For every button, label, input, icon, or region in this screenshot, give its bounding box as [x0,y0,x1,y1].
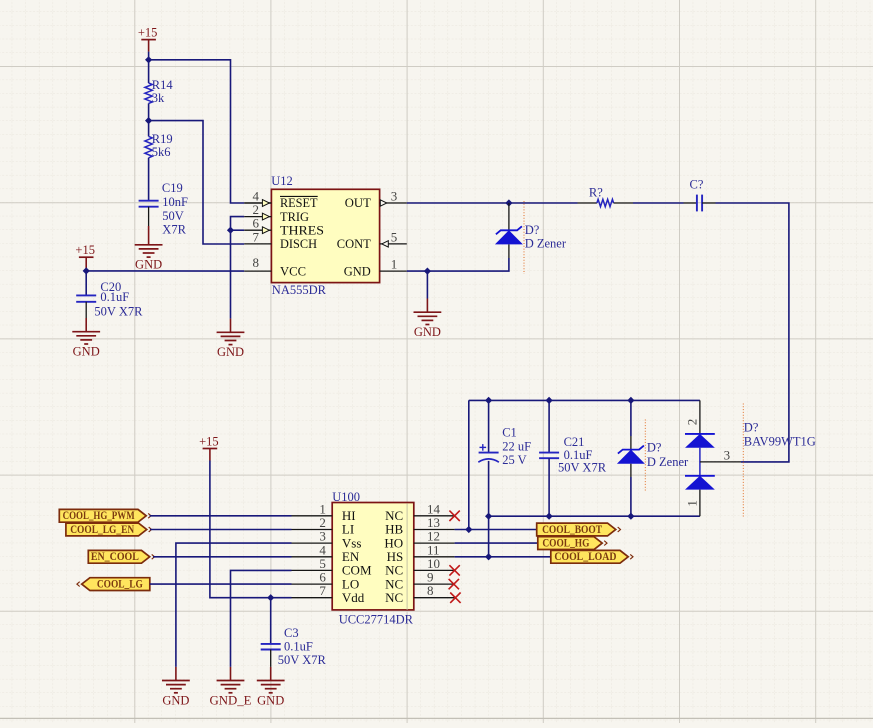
wire stem to ground [230,319,232,333]
svg-text:X7R: X7R [162,223,186,237]
svg-text:5k6: 5k6 [152,145,171,159]
svg-text:7: 7 [253,229,260,244]
svg-text:C?: C? [690,178,704,192]
wire top bus [469,399,700,401]
junction HS/COOL_LOAD [485,553,492,560]
wire HS to COOL_LOAD [455,556,551,558]
junction THRES tap [227,227,234,234]
wire zener to bottom bus [630,477,632,516]
wire EN_COOL to EN [153,556,292,558]
svg-text:GND: GND [162,693,189,707]
no-connect pin 14 [449,511,459,521]
svg-text:VCC: VCC [280,263,306,278]
wire COOL_LG_EN to LI [150,529,292,531]
pin 3 Vss [292,542,333,544]
no-connect pin 8 [450,593,460,603]
svg-text:50V X7R: 50V X7R [94,305,143,319]
svg-text:D Zener: D Zener [525,237,567,251]
junction HB/COOL_BOOT [465,526,472,533]
svg-text:0.1uF: 0.1uF [100,290,129,304]
wire C3 to ground [270,650,272,667]
ground GND under TRIG/THRES [217,332,245,344]
stem [175,667,177,681]
wire node B to R19 [148,121,150,137]
pin 1 GND [380,270,407,272]
svg-text:NA555DR: NA555DR [272,283,327,297]
port COOL_LG [82,578,150,591]
svg-text:GND: GND [73,345,100,359]
svg-text:GND: GND [257,693,284,707]
port COOL_HG [538,537,602,550]
wire +15 stem [85,269,87,271]
power +15 (top) [141,39,156,41]
svg-text:GND: GND [414,325,441,339]
junction GND drop [424,268,431,275]
junction C21 bottom [546,513,553,520]
svg-text:C1: C1 [502,426,517,440]
junction OUT/zener D? [505,199,512,206]
svg-text:8: 8 [253,255,260,270]
svg-text:GND: GND [135,258,162,272]
wire +15 down to R14 [148,60,150,83]
pin 11 HS [414,556,455,558]
pin 2 TRIG [244,216,271,218]
svg-text:2: 2 [685,419,700,426]
capacitor C21 [539,452,559,454]
junction C3 tap [267,594,274,601]
wire +15 to VCC pin 8 [86,270,244,272]
wire zener node to R? [509,202,578,204]
pin 6 THRES [244,229,271,231]
pin 5 COM [292,569,333,571]
svg-text:0.1uF: 0.1uF [284,640,313,654]
wire R19 to C19 [148,158,150,201]
wire C1 to bottom bus and COOL_LOAD net [488,461,490,557]
resistor R? [578,202,597,204]
svg-text:10nF: 10nF [162,195,188,209]
junction zener D? top [627,397,634,404]
svg-text:50V X7R: 50V X7R [558,461,607,475]
wire Vdd node to C3 [270,598,272,644]
capacitor C19 [139,200,159,202]
svg-text:COOL_HG: COOL_HG [542,538,589,550]
pin 12 HO [414,542,455,544]
junction C1 top [485,397,492,404]
svg-text:BAV99WT1G: BAV99WT1G [744,434,816,448]
svg-text:D Zener: D Zener [647,455,689,469]
svg-text:COOL_BOOT: COOL_BOOT [542,524,602,536]
svg-text:COOL_LG_EN: COOL_LG_EN [70,524,135,536]
svg-text:UCC27714DR: UCC27714DR [339,612,414,626]
svg-text:25 V: 25 V [502,453,526,467]
wire +15 down to C20 [85,271,87,296]
diode D? (D Zener) on bus [630,436,632,450]
svg-text:1: 1 [685,500,700,507]
wire +15 to RESET pin 4 [149,60,245,203]
svg-text:Vdd: Vdd [342,590,365,605]
no-connect pin 9 [449,579,459,589]
resistor R14 [145,83,152,103]
svg-text:C19: C19 [162,181,183,195]
wire bottom bus [489,515,700,517]
capacitor C? [684,202,697,204]
wire HB to COOL_BOOT [455,529,537,531]
wire R? to C? [633,202,684,204]
pin 4 EN [292,556,333,558]
svg-text:COOL_LG: COOL_LG [97,579,143,591]
pin 14 NC [414,515,455,517]
wire to ground [426,271,428,298]
svg-text:50V X7R: 50V X7R [278,653,327,667]
pin 7 Vdd [292,597,333,599]
wire THRES pin 6 branch [231,229,245,231]
port COOL_LOAD [551,550,628,563]
svg-text:D?: D? [744,420,759,434]
junction C1/bottom bus [485,513,492,520]
ground GND under C3 [257,681,285,693]
pin 1 HI [292,515,333,517]
wire C19 to ground [148,207,150,226]
pin 10 NC [414,569,455,571]
power +15 (VCC feed) [79,256,94,258]
wire COOL_HG_PWM to HI [150,515,292,517]
junction node B (R14/R19/DISCH) [145,117,152,124]
wire bus to C1 [488,400,490,452]
capacitor C3 [261,643,281,645]
ground GND_E [217,681,245,693]
wire COOL_LG to LO [150,583,292,585]
svg-text:7: 7 [319,583,326,598]
svg-text:COOL_LOAD: COOL_LOAD [554,551,616,563]
capacitor C1 (polarized) [479,452,499,454]
svg-text:U12: U12 [271,174,293,188]
svg-text:U100: U100 [332,490,360,504]
svg-text:CONT: CONT [337,236,371,251]
pin 6 LO [292,583,333,585]
error marker (orange dashed) at BAV99 [742,404,744,518]
svg-text:DISCH: DISCH [280,236,317,251]
no-connect pin 10 [449,565,459,575]
wire TRIG pin 2 down to ground [231,217,245,319]
junction +15 node A [145,56,152,63]
svg-text:COOL_HG_PWM: COOL_HG_PWM [63,510,135,522]
junction +15/C20/VCC [83,267,90,274]
pin 8 NC [414,597,455,599]
pin 2 LI [292,529,333,531]
pin 7 DISCH [244,243,271,245]
svg-text:3k: 3k [152,91,165,105]
op-amp/timer U12 NA555DR body [271,189,379,282]
svg-text:+15: +15 [75,243,95,257]
wire +15 to Vdd pin 7 [210,461,292,598]
wire Vss to ground [176,543,292,667]
pin 13 HB [414,529,455,531]
ground GND under C19 [135,245,163,257]
junction zener bottom [627,513,634,520]
pin 8 VCC [244,270,271,272]
svg-text:GND: GND [217,345,244,359]
ic U100 UCC27714DR body [332,503,414,610]
pin 3 OUT [380,202,407,204]
svg-text:GND_E: GND_E [210,693,252,707]
pin 5 CONT [380,243,407,245]
wire bus to zener D? [630,400,632,436]
error marker (orange dashed) at zener 2 [644,420,646,492]
wire C20 to ground [85,302,87,318]
diode D? (D Zener) at 555 output [508,203,510,230]
resistor R19 [145,136,152,157]
svg-text:OUT: OUT [345,195,371,210]
svg-text:R14: R14 [152,78,174,92]
port COOL_LG_EN [66,523,147,536]
wire COM to GND_E [231,570,292,667]
ground GND under C20 [72,332,100,344]
wire C21 to bottom bus [548,458,550,516]
wire R14 to node B [148,103,150,120]
svg-text:R?: R? [589,185,603,199]
svg-text:+15: +15 [138,25,158,39]
ground GND under 555 [414,312,442,324]
wire C? down to BAV99 pin 3 [716,203,789,462]
svg-text:C3: C3 [284,626,299,640]
port EN_COOL [88,550,149,563]
svg-text:D?: D? [647,440,662,454]
wire node B to DISCH pin 7 [149,121,245,244]
wire GND pin 1 to zener anode [407,258,509,271]
svg-text:EN_COOL: EN_COOL [91,551,139,563]
svg-text:3: 3 [724,448,731,463]
junction C21 top [546,397,553,404]
svg-text:5: 5 [391,229,398,244]
wire HO to COOL_HG [455,542,538,544]
svg-text:GND: GND [344,263,371,278]
svg-text:50V: 50V [162,209,184,223]
power +15 (driver) [203,448,218,450]
pin 3 of BAV99 [700,461,741,463]
svg-text:3: 3 [391,189,398,204]
port COOL_HG_PWM [59,509,146,522]
svg-text:22 uF: 22 uF [502,439,531,453]
pin 4 RESET [244,202,271,204]
wire bus down to HB [468,400,470,529]
ground GND (Vss) [162,681,190,693]
svg-text:NC: NC [385,590,403,605]
diode D? BAV99WT1G dual [699,400,701,434]
svg-text:D?: D? [525,223,540,237]
error marker (orange dashed) at zener D? [523,201,525,274]
wire OUT to zener node [407,202,509,204]
svg-text:+15: +15 [199,434,219,448]
capacitor C20 [76,294,96,296]
svg-text:1: 1 [391,257,398,272]
port COOL_BOOT [537,523,616,536]
svg-text:R19: R19 [152,132,173,146]
svg-text:8: 8 [427,583,434,598]
pin 9 NC [414,583,455,585]
stem [230,667,232,681]
wire +15 stem to junction [148,52,150,60]
wire bus to C21 [548,400,550,452]
